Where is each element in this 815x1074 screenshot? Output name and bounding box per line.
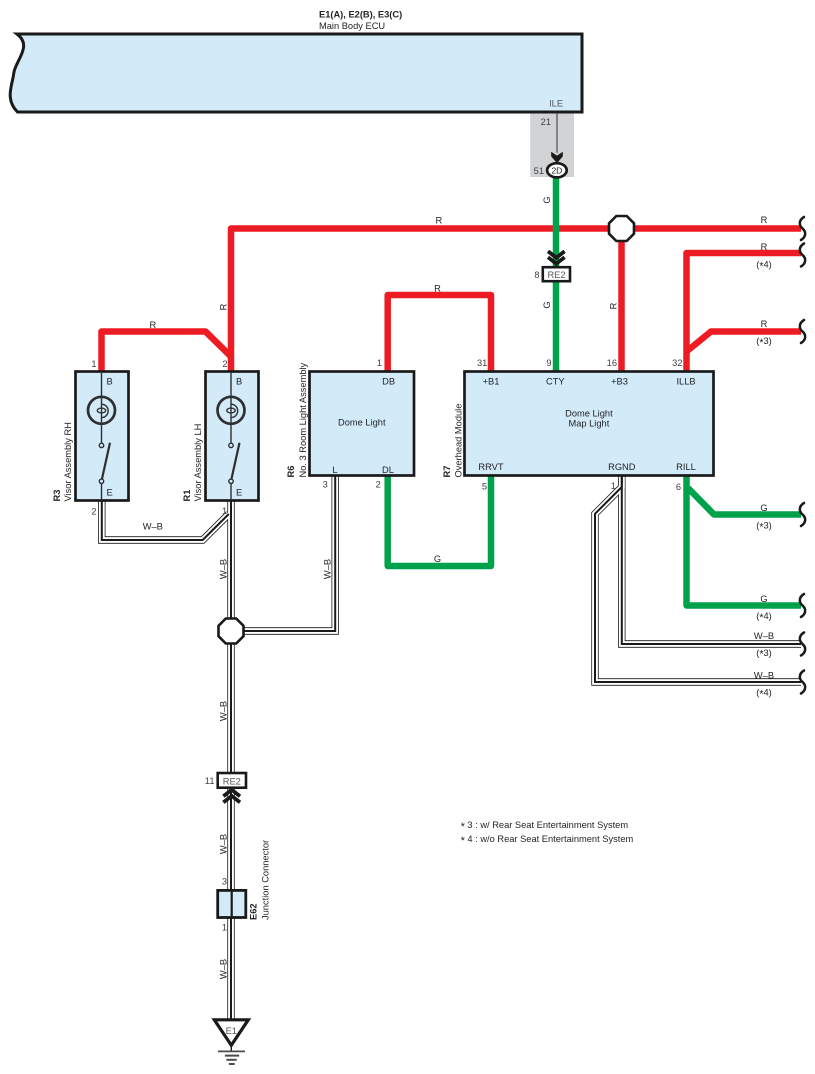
svg-text:W–B: W–B: [754, 670, 774, 680]
svg-text:W–B: W–B: [219, 701, 229, 721]
svg-text:CTY: CTY: [546, 376, 565, 386]
svg-text:(*3): (*3): [756, 336, 772, 349]
svg-text:2: 2: [91, 507, 96, 517]
svg-text:Map Light: Map Light: [568, 418, 609, 428]
svg-text:ILE: ILE: [549, 99, 563, 109]
svg-text:(*4): (*4): [756, 688, 772, 701]
svg-text:2: 2: [376, 480, 381, 490]
svg-text:RGND: RGND: [608, 462, 636, 472]
svg-text:R: R: [435, 215, 442, 225]
svg-text:1: 1: [222, 923, 227, 933]
svg-text:R: R: [761, 215, 768, 225]
svg-text:G: G: [434, 554, 441, 564]
svg-text:Overhead Module: Overhead Module: [454, 404, 464, 478]
svg-text:Dome Light: Dome Light: [338, 418, 386, 428]
svg-text:R1: R1: [182, 490, 192, 502]
svg-text:2: 2: [222, 359, 227, 369]
svg-text:31: 31: [477, 358, 487, 368]
svg-text:RE2: RE2: [547, 270, 565, 280]
svg-text:2D: 2D: [551, 165, 562, 175]
svg-text:ILLB: ILLB: [676, 376, 695, 386]
svg-text:1: 1: [91, 359, 96, 369]
svg-text:E1: E1: [226, 1026, 237, 1036]
svg-text:R3: R3: [52, 490, 62, 502]
svg-text:R7: R7: [442, 466, 452, 478]
svg-text:W–B: W–B: [323, 559, 333, 579]
svg-text:E1(A), E2(B), E3(C): E1(A), E2(B), E3(C): [319, 10, 402, 20]
svg-text:E: E: [107, 488, 113, 498]
svg-text:Visor Assembly RH: Visor Assembly RH: [63, 422, 73, 501]
svg-text:R: R: [219, 303, 229, 310]
svg-text:1: 1: [377, 358, 382, 368]
svg-text:(*3): (*3): [756, 648, 772, 661]
svg-text:RRVT: RRVT: [478, 462, 503, 472]
svg-text:R: R: [149, 320, 156, 330]
svg-text:R: R: [609, 302, 619, 309]
svg-text:1: 1: [222, 506, 227, 516]
svg-text:* 4 : w/o Rear Seat Entertainm: * 4 : w/o Rear Seat Entertainment System: [461, 834, 634, 847]
svg-text:Visor Assembly LH: Visor Assembly LH: [193, 424, 203, 502]
svg-text:W–B: W–B: [754, 631, 774, 641]
svg-text:B: B: [107, 377, 113, 387]
svg-text:G: G: [760, 503, 767, 513]
svg-text:L: L: [332, 465, 337, 475]
svg-text:(*4): (*4): [756, 611, 772, 624]
svg-text:R: R: [434, 283, 441, 293]
svg-text:DL: DL: [382, 465, 394, 475]
svg-text:E: E: [236, 488, 242, 498]
svg-text:9: 9: [546, 358, 551, 368]
svg-text:G: G: [542, 301, 552, 308]
svg-text:RILL: RILL: [676, 462, 696, 472]
svg-text:+B1: +B1: [483, 376, 500, 386]
svg-text:B: B: [236, 377, 242, 387]
svg-text:16: 16: [607, 358, 617, 368]
svg-text:RE2: RE2: [223, 777, 241, 787]
svg-text:+B3: +B3: [611, 376, 628, 386]
svg-text:R6: R6: [286, 466, 296, 478]
svg-text:DB: DB: [382, 376, 395, 386]
svg-text:R: R: [761, 319, 768, 329]
svg-text:(*3): (*3): [756, 521, 772, 534]
svg-text:G: G: [542, 196, 552, 203]
svg-text:R: R: [761, 242, 768, 252]
svg-text:W–B: W–B: [219, 834, 229, 854]
svg-text:11: 11: [205, 776, 215, 786]
svg-text:21: 21: [541, 117, 551, 127]
svg-text:Junction Connector: Junction Connector: [260, 840, 270, 920]
svg-text:(*4): (*4): [756, 260, 772, 273]
svg-text:5: 5: [482, 482, 487, 492]
svg-text:3: 3: [222, 877, 227, 887]
svg-text:1: 1: [611, 481, 616, 491]
svg-text:3: 3: [323, 480, 328, 490]
svg-text:8: 8: [534, 270, 539, 280]
svg-text:W–B: W–B: [219, 559, 229, 579]
svg-text:G: G: [760, 594, 767, 604]
svg-text:* 3 : w/ Rear Seat Entertainme: * 3 : w/ Rear Seat Entertainment System: [461, 820, 629, 833]
svg-text:Dome Light: Dome Light: [565, 409, 613, 419]
svg-text:51: 51: [534, 166, 544, 176]
svg-text:W–B: W–B: [143, 522, 163, 532]
svg-text:E62: E62: [248, 903, 258, 920]
svg-text:No. 3 Room Light Assembly: No. 3 Room Light Assembly: [298, 362, 308, 477]
svg-text:Main Body ECU: Main Body ECU: [319, 21, 385, 31]
svg-text:6: 6: [676, 482, 681, 492]
svg-text:W–B: W–B: [219, 959, 229, 979]
svg-text:32: 32: [672, 358, 682, 368]
